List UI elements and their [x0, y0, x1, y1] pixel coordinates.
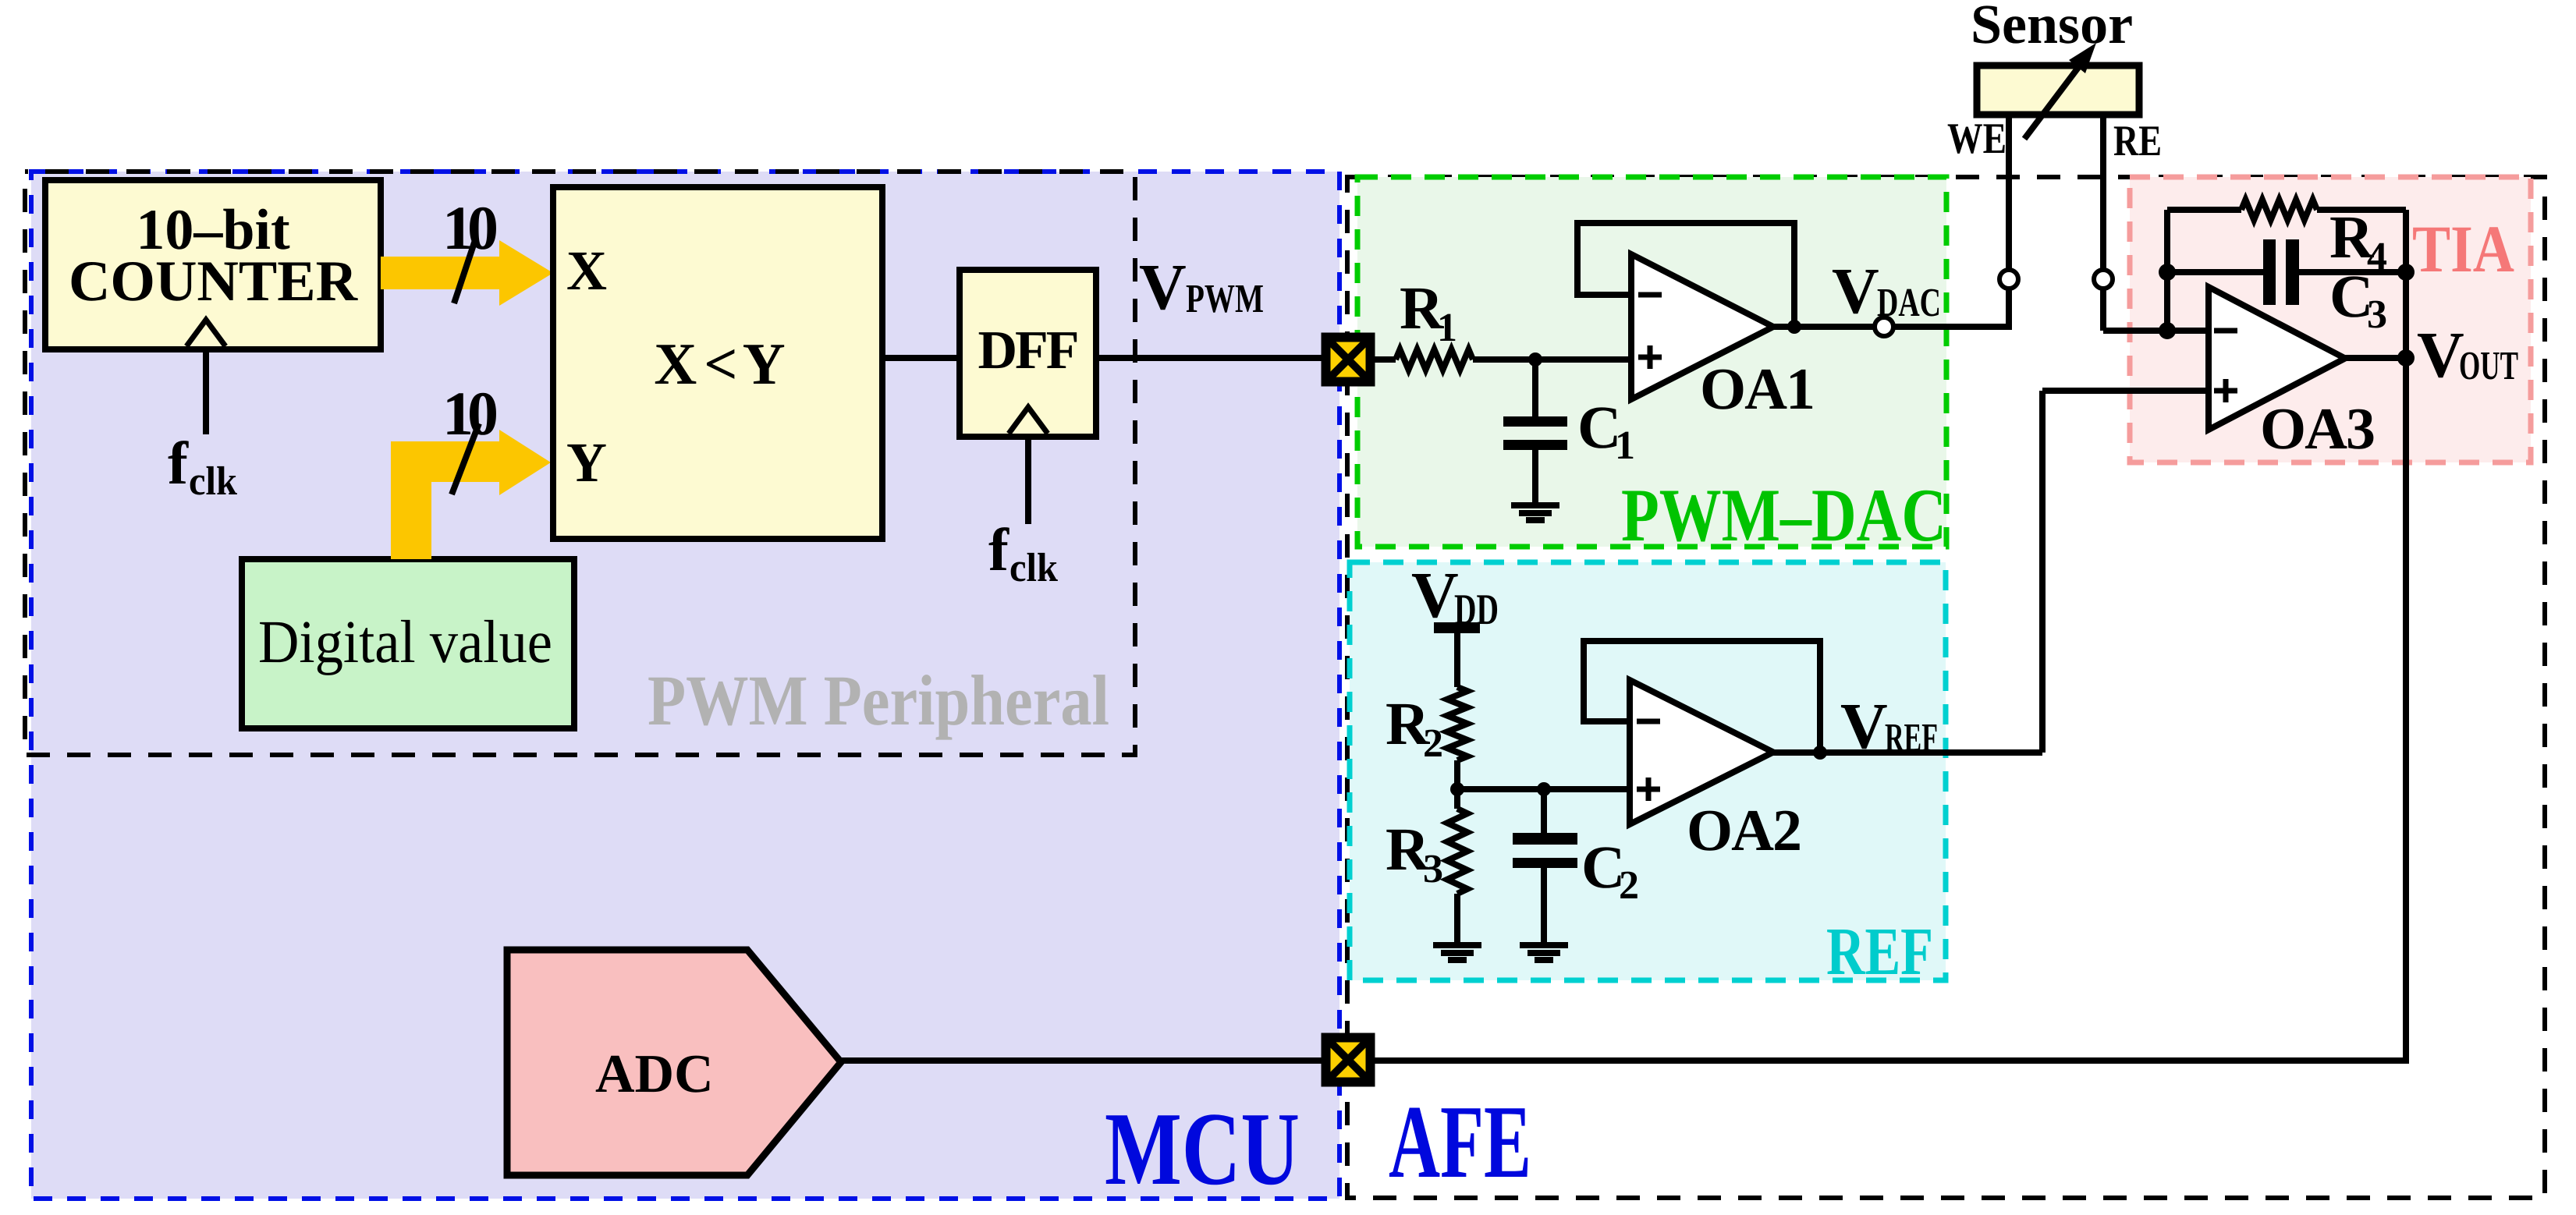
OA3 minus sign	[2214, 328, 2237, 334]
sensor label	[1971, 0, 2133, 55]
resistor R1	[1396, 349, 1473, 370]
wire VREF to OA3 plus	[2042, 388, 2209, 394]
node divider junction	[1450, 782, 1464, 796]
PWM-DAC label	[1621, 473, 1946, 557]
wire C1 to ground	[1532, 450, 1538, 507]
svg-text:clk: clk	[189, 459, 237, 504]
PWM Peripheral region box	[25, 172, 1135, 755]
svg-text:3: 3	[2367, 292, 2387, 337]
op-amp OA2	[1630, 680, 1773, 824]
MCU label	[1105, 1091, 1300, 1206]
DFF box	[960, 270, 1096, 437]
AFE region box	[1347, 177, 2545, 1198]
label OA2	[1687, 798, 1801, 863]
node RE (open)	[2094, 270, 2113, 289]
svg-text:10: 10	[442, 380, 496, 448]
label R1	[1400, 274, 1457, 350]
svg-text:COUNTER: COUNTER	[69, 250, 359, 313]
svg-text:PWM: PWM	[1186, 277, 1264, 321]
DFF clock wedge	[1009, 407, 1048, 434]
TIA feedback left wire	[2164, 210, 2170, 331]
label VPWM	[1139, 251, 1264, 324]
node WE (open)	[1999, 270, 2018, 289]
label VDD	[1411, 559, 1499, 634]
node OA2 output	[1813, 746, 1827, 760]
op-amp OA1	[1631, 254, 1773, 399]
label C1	[1577, 393, 1635, 468]
label R2	[1386, 689, 1443, 766]
label fclk (counter)	[168, 429, 237, 504]
OA2 plus sign	[1637, 778, 1660, 801]
wire OA1 output (VDAC net)	[1773, 324, 2012, 330]
label R4	[2329, 203, 2387, 279]
svg-text:2: 2	[1423, 721, 1443, 766]
svg-text:V: V	[2417, 319, 2464, 391]
label C3	[2329, 262, 2387, 337]
svg-text:V: V	[1411, 559, 1459, 632]
wire fclk to DFF	[1025, 437, 1031, 524]
capacitor C2	[1513, 833, 1577, 868]
node C1 junction	[1528, 352, 1542, 367]
svg-text:f: f	[168, 429, 189, 497]
svg-text:DAC: DAC	[1877, 281, 1941, 325]
comparator port label X	[566, 239, 607, 302]
resistor R3	[1447, 809, 1467, 894]
wire VDD to R2	[1454, 633, 1460, 687]
svg-text:Sensor: Sensor	[1971, 0, 2133, 55]
wire VREF vertical	[2039, 391, 2046, 753]
label fclk (DFF)	[988, 515, 1058, 590]
wire R4 branch left	[2167, 207, 2241, 213]
wire junction to C2	[1541, 789, 1547, 834]
svg-text:REF: REF	[1885, 716, 1938, 760]
wire WE	[2006, 117, 2012, 330]
MCU region box	[31, 172, 1339, 1199]
DFF label	[978, 321, 1077, 381]
sensor box	[1977, 66, 2139, 115]
svg-text:10: 10	[442, 194, 496, 263]
VDD rail	[1434, 622, 1480, 633]
label OA3	[2260, 396, 2374, 462]
ground (C2)	[1520, 945, 1568, 960]
svg-text:RE: RE	[2113, 117, 2162, 165]
label WE	[1947, 115, 2007, 163]
wire C3 branch right	[2299, 269, 2406, 275]
label OA1	[1700, 356, 1814, 422]
REF region box	[1350, 562, 1946, 980]
svg-text:Digital value: Digital value	[258, 607, 552, 675]
ADC block	[507, 950, 841, 1175]
wire C2 to ground	[1541, 868, 1547, 947]
svg-text:AFE: AFE	[1389, 1084, 1531, 1199]
label 10 (Y bus)	[442, 380, 496, 448]
TIA region box	[2130, 177, 2531, 462]
wire divider to OA2	[1457, 786, 1630, 792]
ground (C1)	[1511, 505, 1559, 520]
counter box (10-bit COUNTER)	[45, 180, 381, 349]
bus width slash (Y)	[452, 423, 479, 494]
wire C3 branch left	[2167, 269, 2263, 275]
label C2	[1581, 833, 1639, 908]
pin connector (VPWM to AFE)	[1322, 333, 1375, 387]
label 10 (X bus)	[442, 194, 496, 263]
svg-text:OUT: OUT	[2459, 344, 2518, 388]
svg-text:OA1: OA1	[1700, 356, 1814, 422]
wire OA3 output	[2345, 355, 2406, 361]
OA2 feedback wire	[1584, 641, 1820, 753]
wire DFF to connector (VPWM net)	[1096, 355, 1322, 361]
digital value label	[258, 607, 552, 675]
pin connector (VOUT to ADC)	[1322, 1033, 1375, 1087]
svg-text:OA2: OA2	[1687, 798, 1801, 863]
OA1 minus sign	[1638, 292, 1662, 298]
label RE	[2113, 117, 2162, 165]
wire connector to R1	[1375, 356, 1396, 363]
counter label	[69, 198, 359, 313]
svg-text:Y: Y	[566, 431, 607, 494]
comparator label X < Y	[654, 331, 784, 397]
label VOUT	[2417, 319, 2518, 391]
node OA1 output	[1787, 320, 1801, 334]
svg-text:PWM–DAC: PWM–DAC	[1621, 473, 1946, 557]
wire RE to OA3 minus	[2103, 328, 2209, 334]
svg-text:WE: WE	[1947, 115, 2007, 163]
bus width slash (X)	[454, 238, 476, 303]
node TIA feedback input	[2159, 322, 2176, 339]
svg-text:V: V	[1840, 690, 1888, 763]
bus arrow digital value to Y (10-bit)	[391, 430, 551, 559]
svg-text:ADC: ADC	[595, 1044, 714, 1104]
OA3 plus sign	[2214, 379, 2237, 402]
svg-text:OA3: OA3	[2260, 396, 2374, 462]
svg-text:MCU: MCU	[1105, 1091, 1300, 1206]
svg-text:PWM Peripheral: PWM Peripheral	[648, 661, 1109, 740]
comparator port label Y	[566, 431, 607, 494]
sensor variable arrow	[2024, 43, 2096, 139]
resistor R2	[1447, 687, 1467, 760]
counter clock wedge	[186, 320, 225, 346]
svg-text:TIA: TIA	[2412, 211, 2514, 286]
node C3 right	[2397, 264, 2415, 281]
svg-text:1: 1	[1615, 423, 1635, 468]
capacitor C3	[2263, 239, 2299, 305]
ground (R3)	[1433, 945, 1481, 960]
wire OA2 output (VREF net)	[1773, 749, 2042, 756]
svg-text:X < Y: X < Y	[654, 331, 784, 397]
REF label	[1826, 913, 1933, 989]
resistor R4	[2241, 200, 2317, 220]
label R3	[1386, 815, 1443, 891]
AFE label	[1389, 1084, 1531, 1199]
TIA right vertical wire	[2403, 210, 2409, 361]
svg-text:V: V	[1139, 251, 1187, 324]
capacitor C1	[1503, 416, 1567, 450]
wire R1 to OA1	[1473, 356, 1631, 363]
label VDAC	[1832, 255, 1941, 328]
label VREF	[1840, 690, 1938, 763]
wire R2 to R3	[1454, 760, 1460, 809]
OA1 plus sign	[1638, 345, 1662, 369]
PWM Peripheral label	[648, 661, 1109, 740]
wire junction to C1	[1532, 360, 1538, 418]
wire R4 branch right	[2317, 207, 2406, 213]
node VDAC (open)	[1875, 317, 1893, 336]
comparator box X<Y	[553, 187, 882, 539]
bus arrow counter to X (10-bit)	[381, 240, 553, 306]
svg-text:DFF: DFF	[978, 321, 1077, 381]
svg-text:3: 3	[1423, 847, 1443, 891]
svg-text:1: 1	[1437, 306, 1457, 350]
wire R3 to ground	[1454, 894, 1460, 947]
PWM-DAC region box	[1357, 177, 1946, 547]
svg-text:f: f	[988, 515, 1009, 583]
svg-text:2: 2	[1619, 863, 1639, 908]
node VOUT	[2397, 349, 2415, 367]
OA1 feedback wire	[1577, 223, 1794, 327]
svg-text:DD: DD	[1454, 586, 1499, 634]
wire ADC to connector	[841, 1057, 1322, 1064]
wire comparator to DFF	[882, 355, 960, 361]
node C3 left	[2159, 264, 2176, 281]
wire VOUT to connector	[1375, 358, 2406, 1061]
wire fclk to counter	[203, 349, 209, 434]
svg-text:V: V	[1832, 255, 1879, 328]
ADC label	[595, 1044, 714, 1104]
wire RE	[2100, 117, 2106, 331]
TIA label	[2412, 211, 2514, 286]
digital value box	[242, 559, 574, 728]
OA2 minus sign	[1637, 719, 1660, 724]
op-amp OA3	[2209, 287, 2345, 430]
svg-text:clk: clk	[1009, 546, 1058, 590]
svg-text:X: X	[566, 239, 607, 302]
svg-text:REF: REF	[1826, 913, 1933, 989]
node C2 junction	[1537, 782, 1551, 796]
